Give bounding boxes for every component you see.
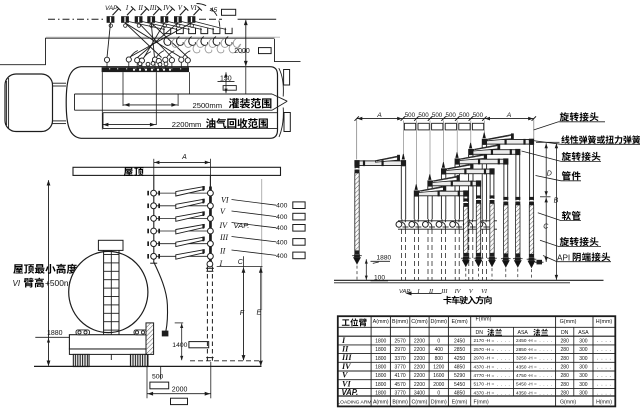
- arm I coupler centreline to ground: [465, 268, 467, 280]
- wheel right (hatched): [130, 354, 148, 366]
- svg-text:1200: 1200: [433, 365, 444, 371]
- svg-text:II: II: [219, 247, 226, 256]
- arm V API coupler: [515, 257, 521, 260]
- left riser bottom flanges: [150, 262, 157, 264]
- svg-text:2000: 2000: [234, 48, 250, 55]
- svg-text:VAP.: VAP.: [342, 388, 359, 397]
- arm VAP. pipe flanges: [381, 160, 383, 166]
- hanging hose curl (grey alt position): [221, 39, 228, 48]
- svg-text:B(mm): B(mm): [392, 319, 408, 325]
- arm VAP. riser elbow: [401, 160, 406, 166]
- svg-text:400: 400: [435, 347, 444, 353]
- hose hanger bracket: [164, 28, 171, 34]
- arm I outboard elbow: [463, 190, 468, 196]
- hanging hose curl (grey alt position): [172, 39, 179, 48]
- svg-text:DN: DN: [476, 330, 484, 336]
- dimension 1400: [175, 322, 184, 324]
- svg-text:ASA: ASA: [578, 330, 589, 336]
- hanging hose curl (grey alt position): [209, 39, 216, 48]
- svg-text:3770: 3770: [395, 391, 406, 397]
- riser base valve IV: [450, 222, 456, 228]
- flag line of VAP.: [113, 9, 119, 16]
- svg-text:280: 280: [561, 347, 570, 353]
- dashed ground reference line: [190, 360, 263, 362]
- arm I horizontal pipe: [418, 191, 464, 196]
- 2000 extension line into tank: [245, 67, 247, 94]
- svg-text:VI: VI: [221, 196, 229, 205]
- arm IV riser elbow: [455, 158, 460, 164]
- dimension line 2200: [102, 124, 156, 126]
- svg-text:300: 300: [579, 365, 588, 371]
- arm II pipe flanges: [451, 181, 453, 187]
- svg-text:280: 280: [561, 338, 570, 344]
- svg-text:400: 400: [276, 214, 288, 221]
- arm IV coupler centreline to ground: [505, 269, 507, 281]
- arm II balance spring (tapered): [433, 176, 458, 182]
- svg-text:A(mm): A(mm): [373, 400, 389, 406]
- arm III pipe flanges: [464, 169, 466, 175]
- leader line to 400 label: [232, 223, 277, 228]
- extension line right (A): [533, 120, 535, 140]
- arm III riser elbow: [441, 168, 446, 174]
- flag line of III: [153, 9, 159, 16]
- svg-text:400: 400: [276, 253, 288, 260]
- left riser swivel joint: [151, 241, 157, 247]
- left riser swivel joint: [151, 190, 157, 196]
- dimension 2000 (platform to tank): [245, 20, 247, 66]
- arm VI pipe flanges: [504, 139, 506, 145]
- svg-text:2450: 2450: [454, 338, 465, 344]
- row of empty boxes under dimension: [404, 123, 415, 130]
- dimension tick: [428, 116, 432, 120]
- svg-text:D(mm): D(mm): [431, 319, 448, 325]
- platform right step: [275, 39, 301, 62]
- arm II riser elbow: [427, 180, 432, 186]
- dimension tick: [414, 116, 418, 120]
- label roof (Chinese): [124, 167, 144, 176]
- dimension tick: [401, 116, 405, 120]
- callout box after 400: [293, 213, 305, 220]
- svg-text:4850: 4850: [454, 391, 465, 397]
- extra coupler fitting at VI: [537, 260, 543, 265]
- ground line (side view): [334, 279, 604, 281]
- right standpipe (loading position): [209, 175, 211, 266]
- callout box after 1400: [189, 342, 209, 348]
- svg-text:3400: 3400: [414, 391, 425, 397]
- table header row: [342, 318, 367, 326]
- arm VAP. spring anchor: [397, 155, 400, 161]
- svg-text:2200: 2200: [414, 338, 425, 344]
- arm III drop hose (hatched): [490, 203, 494, 253]
- svg-text:5170 -H = . . . .: 5170 -H = . . . .: [474, 382, 510, 387]
- svg-text:1800: 1800: [375, 382, 386, 388]
- svg-text:280: 280: [561, 391, 570, 397]
- arm V spring anchor: [497, 144, 500, 150]
- dimension tick: [482, 116, 486, 120]
- svg-text:G(mm): G(mm): [560, 319, 577, 325]
- folded loading arms (front view): [176, 187, 205, 197]
- arm VAP. drop hose (hatched): [355, 173, 359, 251]
- svg-text:300: 300: [579, 382, 588, 388]
- left riser swivel joint: [151, 228, 157, 234]
- table F/G sub-column dividers: [512, 327, 514, 396]
- leader line to 400 label: [232, 250, 277, 255]
- svg-text:II: II: [341, 345, 349, 354]
- svg-text:500: 500: [418, 112, 429, 119]
- svg-text:2970 -H = . . . .: 2970 -H = . . . .: [474, 356, 510, 361]
- callout swivel joint (second): [562, 152, 601, 161]
- dimension line 2500: [123, 104, 177, 106]
- plan hose reel IV (black square symbol): [161, 16, 169, 23]
- empty callout box beside 2000: [259, 48, 272, 54]
- dimension E (front view): [260, 267, 262, 366]
- svg-text:4570: 4570: [395, 382, 406, 388]
- svg-text:2200: 2200: [414, 373, 425, 379]
- svg-text:5290: 5290: [454, 373, 465, 379]
- dimension tick: [469, 116, 473, 120]
- left riser swivel joint: [151, 216, 157, 222]
- callout box bottom: [171, 398, 188, 404]
- table horizontal rules: [338, 326, 616, 328]
- svg-text:4750 -H = . . . .: 4750 -H = . . . .: [516, 373, 552, 378]
- dimension 500 ticks: [146, 366, 148, 398]
- callout box after 400: [293, 252, 305, 259]
- svg-text:ASA: ASA: [518, 330, 529, 336]
- dimension tick: [532, 116, 536, 120]
- filling range arrow tip: [272, 94, 287, 101]
- tank shell (front view): [69, 251, 148, 332]
- truck chassis (front view): [69, 335, 148, 349]
- svg-text:300: 300: [579, 338, 588, 344]
- arm IV outboard elbow: [503, 158, 508, 164]
- svg-text:4370 -H = . . . .: 4370 -H = . . . .: [474, 390, 510, 395]
- svg-text:. . . .: . . . .: [597, 390, 611, 396]
- svg-text:1800: 1800: [375, 338, 386, 344]
- svg-text:A: A: [506, 112, 512, 119]
- svg-text:500: 500: [446, 112, 457, 119]
- svg-text:B: B: [554, 198, 559, 205]
- svg-text:4770 -H = . . . .: 4770 -H = . . . .: [474, 373, 510, 378]
- manhole nozzles on catwalk: [133, 68, 136, 71]
- arm IV swivel flag: [456, 152, 458, 157]
- empty callout box below 150: [223, 86, 236, 91]
- right standpipe swivel joint: [208, 190, 214, 196]
- arm IV lower swivel: [503, 254, 508, 257]
- arm VI swivel flag: [483, 133, 485, 138]
- arm IV drop pipe: [503, 165, 505, 201]
- arm VAP. swivel flag: [402, 154, 404, 159]
- arm III drop pipe: [489, 174, 491, 199]
- dashed standpipe bottom flange: [206, 357, 213, 359]
- truck cab (plan view): [5, 74, 53, 132]
- arm VAP. coupler centreline to ground: [356, 266, 358, 281]
- dashed standpipe top joint: [207, 261, 213, 267]
- dimension A (front view): [154, 161, 211, 163]
- arm III balance spring (tapered): [447, 164, 472, 170]
- arm III lower swivel: [489, 253, 494, 256]
- dimension C (side view): [540, 196, 551, 198]
- callout pipe fitting: [562, 171, 581, 180]
- svg-text:IV: IV: [219, 221, 229, 230]
- svg-text:D: D: [547, 170, 552, 177]
- chassis mounting bumps: [76, 330, 90, 335]
- second row small circles: [138, 62, 142, 66]
- svg-text:. . . .: . . . .: [597, 356, 611, 362]
- svg-text:E(mm): E(mm): [451, 319, 467, 325]
- arm VAP. API coupler: [354, 254, 360, 257]
- arm I lower swivel: [463, 253, 468, 256]
- hanging hose curl (grey alt position): [233, 39, 240, 48]
- riser base valve I: [409, 222, 415, 228]
- label truck drive-in direction (Chinese): [443, 296, 491, 305]
- svg-text:A: A: [181, 154, 187, 161]
- svg-text:4850: 4850: [454, 365, 465, 371]
- svg-text:G(mm): G(mm): [560, 400, 576, 406]
- plan view: gantry platform outline: [0, 38, 275, 64]
- riser base valve III: [436, 222, 442, 228]
- svg-text:API: API: [557, 253, 570, 262]
- svg-text:VI: VI: [190, 5, 197, 12]
- right standpipe swivel joint: [208, 216, 214, 222]
- arm IV horizontal pipe: [459, 159, 505, 164]
- cab-trailer coupling upper bar: [53, 82, 67, 84]
- arm III outboard elbow: [489, 168, 494, 174]
- plan hose reel V (black square symbol): [174, 16, 182, 23]
- dimension tick: [441, 116, 445, 120]
- ground line (front view): [34, 365, 262, 367]
- dimension tick: [455, 116, 459, 120]
- hanging hose curl (black): [164, 37, 171, 46]
- svg-text:. . . .: . . . .: [597, 347, 611, 353]
- svg-text:800: 800: [435, 356, 444, 362]
- svg-text:2570 -H = . . . .: 2570 -H = . . . .: [474, 347, 510, 352]
- svg-text:300: 300: [579, 373, 588, 379]
- svg-text:3770: 3770: [395, 365, 406, 371]
- arm III swivel flag: [442, 162, 444, 167]
- arm VI drop hose (hatched): [529, 205, 533, 254]
- svg-text:300: 300: [579, 391, 588, 397]
- right standpipe swivel joint: [208, 253, 214, 259]
- cab front bumper lines: [6, 81, 8, 125]
- svg-text:0: 0: [437, 391, 440, 397]
- svg-text:. . . .: . . . .: [597, 338, 611, 344]
- tank rear tab lower: [284, 113, 290, 132]
- svg-text:IV: IV: [341, 362, 352, 371]
- fan of hose lines from reels to tank connections: [107, 23, 111, 58]
- svg-text:. . . .: . . . .: [597, 382, 611, 388]
- svg-text:1880: 1880: [377, 255, 392, 262]
- arm II drop hose (hatched): [476, 203, 480, 253]
- svg-text:500: 500: [459, 112, 470, 119]
- svg-text:B(mm): B(mm): [392, 400, 408, 406]
- svg-text:1400: 1400: [172, 342, 187, 349]
- callout box after 400: [293, 202, 305, 209]
- arm VI coupler centreline to ground: [531, 269, 533, 280]
- svg-text:IV: IV: [162, 5, 170, 12]
- arm VAP. lower swivel: [354, 251, 359, 254]
- svg-text:C(mm): C(mm): [411, 319, 428, 325]
- svg-text:VAP.: VAP.: [105, 5, 118, 12]
- dimension tick: [355, 116, 359, 120]
- flag line of VI: [194, 9, 200, 16]
- svg-text:45: 45: [210, 7, 218, 14]
- drop hose curve to tank side: [154, 262, 168, 332]
- svg-text:H(mm): H(mm): [596, 400, 612, 406]
- arm IV pipe flanges: [478, 159, 480, 165]
- arm VAP. horizontal pipe: [359, 161, 403, 166]
- arm I pipe flanges: [438, 191, 440, 197]
- svg-text:5450 -H = . . . .: 5450 -H = . . . .: [516, 382, 552, 387]
- tank rear double wall upper: [279, 68, 284, 96]
- svg-text:4250: 4250: [454, 356, 465, 362]
- table vertical rules: [370, 316, 372, 406]
- plan hose reel III (black square symbol): [147, 16, 155, 23]
- filling range band (2500mm): [75, 93, 273, 95]
- dimension D (side view): [536, 141, 550, 143]
- svg-text:III: III: [149, 5, 158, 12]
- svg-text:. . . .: . . . .: [597, 373, 611, 379]
- arm VI horizontal pipe: [486, 140, 530, 145]
- svg-text:VAP.: VAP.: [234, 221, 250, 230]
- svg-text:F(mm): F(mm): [476, 317, 492, 323]
- hanging hose curl (black): [189, 37, 196, 46]
- svg-text:A: A: [376, 112, 382, 119]
- A dimension arrowheads: [357, 117, 362, 121]
- arm V outboard elbow: [515, 149, 520, 155]
- svg-text:280: 280: [561, 365, 570, 371]
- hose hanger bracket: [189, 28, 196, 34]
- svg-text:2200: 2200: [414, 356, 425, 362]
- svg-text:E: E: [257, 310, 262, 317]
- svg-text:2200: 2200: [414, 365, 425, 371]
- riser base valve II: [423, 222, 429, 228]
- svg-text:2200: 2200: [414, 382, 425, 388]
- pipe rack centreline (dash-dot): [48, 18, 104, 20]
- callout hose: [562, 211, 581, 220]
- arm III spring anchor: [470, 163, 473, 169]
- riser centrelines: [403, 121, 405, 156]
- hose hanger bracket: [177, 28, 184, 34]
- grey reference line (front view): [261, 179, 263, 310]
- arm III API coupler: [489, 257, 495, 260]
- riser pipes (behind arms): [400, 166, 402, 219]
- label fill range (Chinese): [229, 98, 272, 108]
- left riser swivel joint: [151, 203, 157, 209]
- arm level connection lines: [157, 192, 208, 194]
- plan hose reel VI (black square symbol): [188, 16, 196, 23]
- left riser standpipe: [153, 175, 155, 261]
- label roof minimum height line1 (Chinese): [13, 264, 77, 274]
- svg-text:DN: DN: [561, 330, 569, 336]
- plan hose reel VAP. (black square symbol): [107, 16, 115, 23]
- access ladder: [103, 250, 105, 348]
- arm V balance spring (tapered): [474, 145, 499, 151]
- svg-text:2570: 2570: [395, 338, 406, 344]
- dimension F (front view): [243, 267, 245, 360]
- hanging hose curl (black): [176, 37, 183, 46]
- svg-text:500: 500: [473, 112, 484, 119]
- svg-text:III: III: [341, 353, 352, 362]
- svg-text:3250 -H = . . . .: 3250 -H = . . . .: [516, 356, 552, 361]
- arm I swivel flag: [415, 184, 417, 189]
- arm VAP. balance spring (tapered): [376, 156, 400, 162]
- svg-text:400: 400: [276, 239, 288, 246]
- label vapour recovery range (Chinese): [206, 118, 268, 128]
- arm II coupler centreline to ground: [478, 268, 480, 280]
- svg-text:400: 400: [276, 203, 288, 210]
- hose end coupler (black): [162, 331, 169, 337]
- flag line of V: [180, 9, 186, 16]
- arm III coupler centreline to ground: [491, 268, 493, 280]
- svg-text:1600: 1600: [433, 373, 444, 379]
- leader line to 400 label: [232, 237, 277, 242]
- 45 degree angle arc: [197, 4, 220, 27]
- svg-text:500: 500: [405, 112, 416, 119]
- tank trailer body (plan view): [66, 67, 277, 139]
- svg-text:H(mm): H(mm): [596, 319, 613, 325]
- svg-text:3370: 3370: [395, 356, 406, 362]
- arm VI outboard elbow: [529, 139, 534, 145]
- empty callout box (top): [222, 9, 236, 15]
- svg-text:1800: 1800: [375, 365, 386, 371]
- right standpipe swivel joint: [208, 241, 214, 247]
- svg-text:C(mm): C(mm): [412, 400, 428, 406]
- arm II horizontal pipe: [432, 181, 478, 186]
- svg-text:1800: 1800: [375, 356, 386, 362]
- dimension extension lines below catwalk: [101, 72, 103, 129]
- svg-text:VI: VI: [342, 379, 351, 388]
- lowered arm standpipe (dashed position): [206, 267, 208, 361]
- svg-text:500: 500: [152, 373, 164, 380]
- svg-text:LOADING ARM: LOADING ARM: [337, 399, 371, 405]
- arm V lower swivel: [515, 254, 520, 257]
- dimension roof min height (left): [48, 180, 50, 365]
- arm I API coupler: [463, 257, 469, 260]
- svg-text:4350 -H = . . . .: 4350 -H = . . . .: [516, 364, 552, 369]
- tank rear double wall lower: [279, 108, 283, 138]
- svg-text:1880: 1880: [47, 330, 63, 337]
- plan hose reel II (black square symbol): [135, 16, 143, 23]
- arm II outboard elbow: [476, 180, 481, 186]
- svg-text:280: 280: [561, 373, 570, 379]
- arm IV balance spring (tapered): [460, 154, 485, 160]
- arm IV drop hose (hatched): [504, 205, 508, 254]
- arm V coupler centreline to ground: [517, 269, 519, 281]
- data table outer border: [338, 316, 616, 406]
- arm V horizontal pipe: [472, 150, 516, 155]
- arm II drop pipe: [476, 187, 478, 200]
- svg-text:4370 -H = . . . .: 4370 -H = . . . .: [474, 364, 510, 369]
- arm VI lower swivel: [529, 254, 534, 257]
- arm V riser elbow: [468, 149, 473, 155]
- leader line to 400 label: [232, 211, 277, 217]
- hanging hose curl (grey alt position): [184, 39, 191, 48]
- svg-text:4350 -H = . . . .: 4350 -H = . . . .: [516, 390, 552, 395]
- callout box below 500: [150, 382, 169, 389]
- svg-text:III: III: [219, 233, 228, 242]
- plan hose reel I (black square symbol): [121, 16, 129, 23]
- riser base valve V: [463, 222, 469, 228]
- top dimension line (side view): [357, 118, 534, 120]
- svg-text:280: 280: [561, 382, 570, 388]
- arm VI spring anchor: [511, 133, 514, 139]
- right standpipe swivel joint: [208, 203, 214, 209]
- hose connection circles on tank top: [104, 57, 109, 62]
- hanging hose curl (grey alt position): [197, 39, 204, 48]
- reference line at arm I lower flange: [217, 266, 263, 268]
- hose end curls near circles: [130, 51, 138, 58]
- arm III horizontal pipe: [445, 169, 490, 174]
